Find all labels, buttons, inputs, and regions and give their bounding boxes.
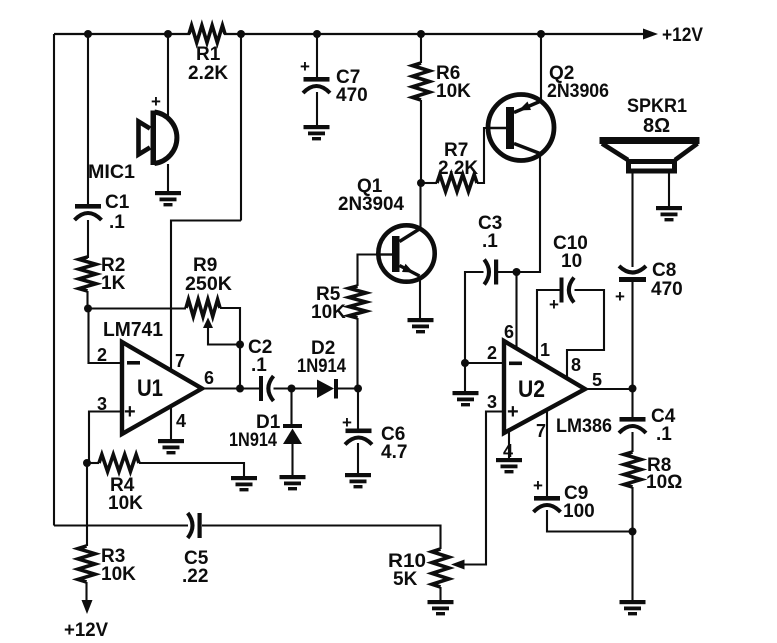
svg-text:100: 100 <box>563 501 595 522</box>
wire R3 bottom <box>85 582 87 601</box>
resistor R7 <box>437 175 477 192</box>
wire C7 to ground <box>316 92 318 126</box>
wire Q2 collector down <box>517 154 541 272</box>
resistor R3 <box>78 546 95 582</box>
svg-text:3: 3 <box>487 392 497 412</box>
wire Q1 collector <box>419 183 421 229</box>
wire R6 top <box>420 34 422 63</box>
wire D2 left <box>292 387 318 389</box>
wire C1 top <box>87 34 89 205</box>
svg-text:U1: U1 <box>137 375 163 402</box>
svg-text:470: 470 <box>336 85 368 106</box>
resistor R5 <box>349 286 366 318</box>
node D2/R5/C6 junction <box>354 385 362 393</box>
node R6/R7/Q1 junction <box>417 179 425 187</box>
op-amp U2 <box>504 341 585 433</box>
svg-text:U2: U2 <box>518 376 545 403</box>
svg-text:10K: 10K <box>108 493 143 514</box>
resistor R4 <box>99 455 139 472</box>
wire U2 output <box>585 388 633 390</box>
svg-text:R1: R1 <box>196 44 221 65</box>
node rail junction D (C7 branch) <box>313 30 321 38</box>
node R3/R4/pin3 junction <box>83 459 91 467</box>
svg-text:10K: 10K <box>436 81 471 102</box>
wire R5 top to Q1 base <box>358 255 393 287</box>
wire C6 top <box>357 389 359 430</box>
capacitor C2 <box>259 376 263 401</box>
wire R8 to ground <box>631 487 633 601</box>
svg-text:+: + <box>533 476 543 495</box>
svg-text:SPKR1: SPKR1 <box>627 96 687 117</box>
ground output <box>620 600 646 604</box>
wire D1 top <box>290 389 292 426</box>
svg-text:+12V: +12V <box>662 25 703 46</box>
diode D2 <box>317 380 334 399</box>
node rail junction C (R1 right) <box>237 30 245 38</box>
wire U1 pin4 <box>170 406 172 441</box>
wire C2 to D-node <box>274 387 292 389</box>
ground MIC1 <box>155 191 181 195</box>
wire C5 to R10 <box>202 526 441 550</box>
speaker SPKR1 <box>600 137 700 144</box>
wire U2 pin6 feed <box>515 272 517 349</box>
svg-text:2.2K: 2.2K <box>188 63 228 84</box>
svg-text:470: 470 <box>651 279 683 300</box>
wire left rail vertical <box>53 34 55 526</box>
wire R7 left stub <box>421 182 437 184</box>
wire C3 right <box>498 271 517 273</box>
wire jog to pin7 <box>171 221 241 372</box>
microphone MIC1 <box>155 112 177 164</box>
svg-text:+: + <box>507 401 519 423</box>
wire left rail to C5 <box>54 524 188 526</box>
wire U2 pin3 <box>463 412 504 565</box>
wire R3 top <box>86 463 88 546</box>
wire D2 right <box>338 387 358 389</box>
node R9 at output <box>236 385 244 393</box>
wire C10 left to pin1 <box>537 290 560 361</box>
wire R2 to node <box>86 291 88 309</box>
arrow +12V rail head <box>643 29 658 40</box>
svg-text:6: 6 <box>504 322 514 342</box>
svg-text:.1: .1 <box>109 212 125 233</box>
capacitor C10 <box>560 278 564 303</box>
wire R10 bottom <box>439 587 441 601</box>
wire Q2 emitter up <box>540 34 542 100</box>
wire C3 node ground <box>464 363 466 392</box>
wire R4 to ground <box>139 463 244 477</box>
svg-text:6: 6 <box>204 368 214 388</box>
svg-text:10Ω: 10Ω <box>646 472 682 493</box>
ground C6 <box>345 473 371 477</box>
wire node to R9 <box>88 307 186 309</box>
node rail junction B (MIC1 branch) <box>164 30 172 38</box>
svg-text:10K: 10K <box>101 564 136 585</box>
ground C7 <box>304 125 330 129</box>
ground R10 <box>428 600 454 604</box>
capacitor C7 <box>304 77 330 82</box>
svg-text:LM386: LM386 <box>556 416 612 437</box>
svg-text:7: 7 <box>536 421 546 441</box>
wire +12V top rail right <box>224 33 644 35</box>
capacitor C5 <box>188 513 193 538</box>
wire C1 to R2 <box>87 220 89 258</box>
wire R6 bottom <box>420 100 422 183</box>
svg-text:MIC1: MIC1 <box>88 162 135 183</box>
wire R9 right to junction <box>220 308 240 345</box>
svg-text:10K: 10K <box>311 302 346 323</box>
svg-text:250K: 250K <box>185 274 232 295</box>
node C3/Q2/pin6 junction <box>513 268 521 276</box>
ground C3 node <box>453 391 479 395</box>
svg-text:+: + <box>300 57 310 76</box>
wire U1 output <box>202 387 259 389</box>
svg-text:+12V: +12V <box>64 620 108 641</box>
wire +12V top rail left <box>54 33 190 35</box>
wire C6 to ground <box>357 443 359 474</box>
wire C10 right to pin8 <box>567 290 604 379</box>
ground speaker <box>656 206 682 210</box>
wire C7 top <box>316 34 318 78</box>
svg-text:.1: .1 <box>656 424 672 445</box>
wire R1 right down <box>240 34 242 221</box>
resistor R10 (pot) <box>432 549 449 587</box>
wire R5 bottom <box>356 318 358 389</box>
node C2/D1/D2 junction <box>288 385 296 393</box>
node rail junction A (C1 branch) <box>84 30 92 38</box>
resistor R9 (pot) <box>186 300 220 317</box>
svg-text:8: 8 <box>571 355 581 375</box>
wire U2 pin7 to C9 <box>546 410 548 497</box>
svg-text:+: + <box>151 92 161 111</box>
ground D1 <box>280 475 306 479</box>
svg-text:2N3904: 2N3904 <box>338 194 404 215</box>
svg-text:5: 5 <box>592 370 602 390</box>
ground U1 pin4 <box>158 439 184 443</box>
op-amp U1 <box>122 342 202 434</box>
svg-text:4.7: 4.7 <box>381 442 407 463</box>
svg-text:LM741: LM741 <box>103 319 163 341</box>
resistor R2 <box>79 257 96 291</box>
node rail junction F (Q2 emitter) <box>537 30 545 38</box>
svg-text:1: 1 <box>540 340 550 360</box>
wire D1 to ground <box>291 444 293 476</box>
capacitor C6 <box>346 429 372 434</box>
wire MIC1 to ground <box>167 164 169 192</box>
svg-text:1N914: 1N914 <box>229 430 277 451</box>
capacitor C3 <box>484 260 489 285</box>
wire U2 pin4 <box>508 431 510 459</box>
svg-text:+: + <box>549 295 559 314</box>
resistor R6 <box>413 63 430 100</box>
ground Q1 emitter <box>408 318 434 322</box>
svg-text:.1: .1 <box>251 355 267 376</box>
wire junction down to output <box>239 345 241 389</box>
svg-text:2.2K: 2.2K <box>438 158 478 179</box>
wire C9 to output ground node <box>547 510 633 532</box>
node R9/wiper junction <box>236 341 244 349</box>
node rail junction E (R6 branch) <box>417 30 425 38</box>
wire pin2 link <box>465 362 504 364</box>
svg-text:2N3906: 2N3906 <box>547 81 609 102</box>
wire C4 to R8 <box>631 432 633 452</box>
node C9/R8 junction <box>629 528 637 536</box>
wire U1 pin2 <box>89 309 123 364</box>
capacitor C9 <box>534 496 560 501</box>
wire U1 pin3 <box>89 412 122 464</box>
capacitor C8 <box>619 266 646 273</box>
svg-text:1N914: 1N914 <box>297 356 346 377</box>
arrow +12V bottom <box>82 600 93 614</box>
arrow R9 wiper <box>203 318 213 329</box>
wire R9 wiper run <box>208 327 240 345</box>
capacitor C1 <box>75 204 101 209</box>
wire C8 to output node <box>631 282 633 418</box>
ground U2 pin4 <box>496 458 522 462</box>
node output junction <box>629 385 637 393</box>
wire C3 left <box>465 272 484 363</box>
wire speaker left lead <box>631 172 633 267</box>
svg-text:1K: 1K <box>101 273 126 294</box>
wire R7 to Q2 base <box>477 128 506 183</box>
label U1 minus <box>127 361 140 365</box>
ground R4 <box>231 476 257 480</box>
svg-text:5K: 5K <box>393 569 418 590</box>
label U2 minus <box>509 362 522 366</box>
resistor R8 <box>624 452 641 487</box>
wire Q1 emitter to ground <box>419 278 421 320</box>
svg-text:.22: .22 <box>182 566 208 587</box>
svg-text:2: 2 <box>487 343 497 363</box>
wire R10 wiper run <box>466 563 486 565</box>
svg-text:7: 7 <box>175 351 185 371</box>
wire speaker right lead <box>668 173 670 207</box>
transistor Q2 <box>488 95 554 161</box>
resistor R1 <box>189 26 225 43</box>
svg-text:R9: R9 <box>193 255 217 276</box>
capacitor C4 <box>620 417 646 422</box>
svg-text:C1: C1 <box>105 192 130 213</box>
svg-text:+: + <box>124 401 136 423</box>
svg-text:+: + <box>615 287 625 306</box>
svg-text:.1: .1 <box>482 231 498 252</box>
arrow R10 wiper <box>451 560 465 570</box>
svg-text:C8: C8 <box>652 260 676 281</box>
svg-text:4: 4 <box>176 411 186 431</box>
svg-text:8Ω: 8Ω <box>643 115 670 137</box>
node C3/pin2 junction <box>461 359 469 367</box>
diode D1 <box>283 424 302 428</box>
svg-text:10: 10 <box>561 251 582 272</box>
transistor Q1 <box>378 225 434 281</box>
wire R4 left stub <box>87 462 99 464</box>
node R2/R9/pin2 junction <box>84 305 92 313</box>
wire MIC1 feed <box>167 34 169 117</box>
